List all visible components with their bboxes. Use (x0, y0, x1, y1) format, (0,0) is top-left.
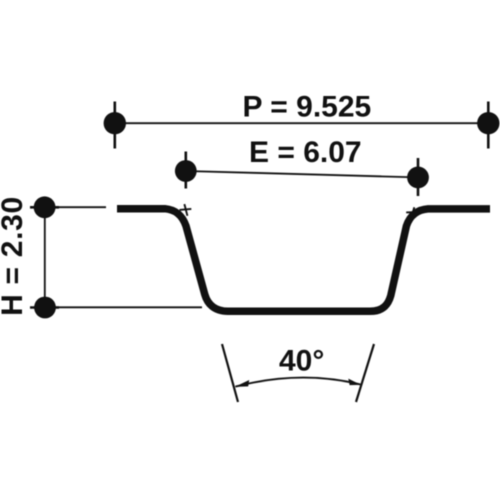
angle right flank extension line (356, 344, 374, 402)
dimension P right tick (487, 102, 490, 149)
dimension P right dot (477, 112, 499, 134)
svg-text:40°: 40° (279, 345, 324, 378)
dimension E right tick (417, 158, 420, 196)
dimension E left dot (175, 160, 197, 182)
dimension E line (186, 171, 418, 177)
H top extension line (45, 206, 106, 208)
H bottom extension line (45, 306, 202, 308)
svg-text:E = 6.07: E = 6.07 (249, 136, 362, 169)
dimension H top dot (34, 196, 56, 218)
plus mark right (E reference on belt) (406, 207, 419, 217)
dimension H top tick (30, 206, 59, 209)
belt tooth profile (117, 209, 490, 312)
angle arc right arrowhead (348, 379, 361, 386)
svg-text:H = 2.30: H = 2.30 (0, 196, 29, 316)
angle arc left arrowhead (235, 380, 250, 387)
dimension E left tick (185, 152, 188, 189)
svg-text:P = 9.525: P = 9.525 (243, 91, 372, 124)
angle left flank extension line (222, 344, 238, 402)
plus mark left (E reference on belt) (180, 204, 192, 216)
dimension P line (115, 122, 488, 124)
dimension H bottom tick (30, 306, 59, 309)
dimension E right dot (407, 167, 429, 189)
angle arc (236, 378, 361, 387)
dimension H vertical line (44, 207, 46, 307)
dimension H bottom dot (34, 297, 56, 319)
dimension P left dot (104, 112, 126, 134)
dimension P left tick (114, 102, 117, 149)
